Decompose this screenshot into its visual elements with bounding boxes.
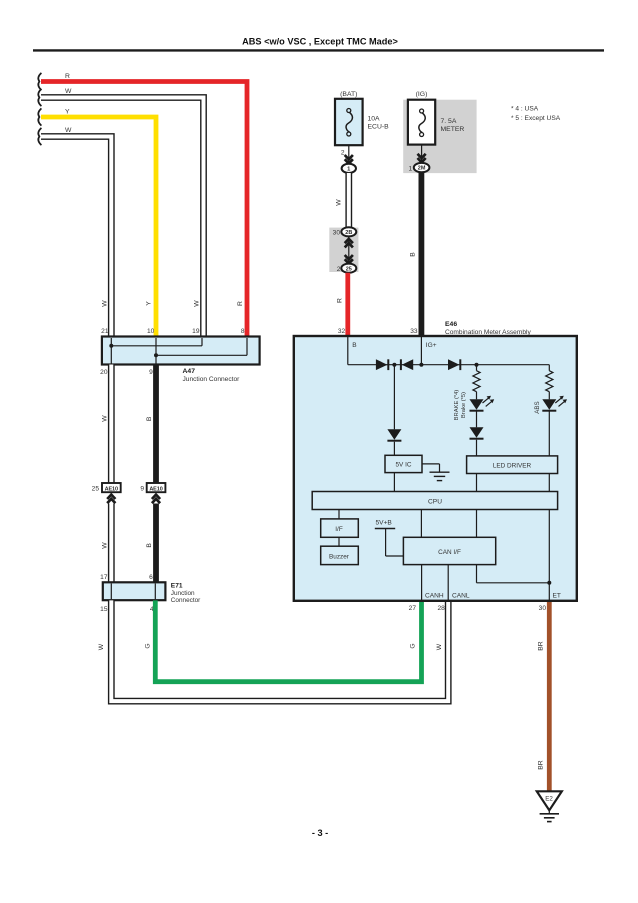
abs indicator resistor [548, 365, 550, 371]
svg-text:CAN I/F: CAN I/F [438, 549, 461, 556]
wire fuse to connector 1 [348, 145, 350, 164]
ground point E2 [537, 791, 562, 810]
svg-text:30: 30 [333, 229, 341, 236]
wire CAN I/F to ET node [476, 565, 478, 583]
arrow into connector 2M [418, 154, 426, 158]
svg-text:ABS: ABS [534, 401, 541, 413]
ground at 5V IC [422, 463, 440, 465]
A47 junction dot pin10 [154, 353, 158, 357]
wires LED DRIVER to CPU [476, 474, 478, 492]
fuse ECU-B symbol [347, 109, 351, 113]
svg-text:LED DRIVER: LED DRIVER [493, 462, 532, 469]
svg-text:Y: Y [146, 301, 153, 306]
A47 internal link pin10-pin8 [155, 338, 157, 355]
svg-text:* 4 : USA: * 4 : USA [511, 106, 539, 113]
svg-text:BRAKE (*4): BRAKE (*4) [454, 390, 460, 421]
svg-text:E71: E71 [171, 583, 183, 590]
arrow into connector 1 [345, 155, 353, 159]
wire I/F to Buzzer [338, 537, 340, 546]
wire CPU to ET pin 30 [548, 510, 550, 601]
wire G from E71 pin 4 to meter pin 27 (CANH) [155, 600, 421, 681]
svg-text:W: W [98, 643, 105, 650]
svg-text:2M: 2M [418, 166, 426, 172]
title rule [33, 49, 604, 51]
wire W connector1 to 2B [345, 173, 352, 228]
svg-text:2B: 2B [345, 230, 352, 236]
wire B from 2M to meter pin 33 [418, 172, 424, 338]
svg-text:METER: METER [441, 126, 465, 133]
I/F box [321, 519, 359, 537]
svg-text:(IG): (IG) [416, 91, 428, 98]
A47 internal pass-through to pin9 [155, 355, 157, 363]
svg-text:Y: Y [65, 108, 70, 115]
svg-text:AE10: AE10 [105, 486, 118, 492]
wire CPU to I/F [338, 510, 340, 519]
wire W2 run to A47 pin 21 [41, 137, 111, 339]
Buzzer box [321, 546, 359, 564]
svg-text:Junction: Junction [171, 590, 195, 597]
connector oval 2M [414, 163, 430, 172]
diode D4 to 5V IC [387, 429, 401, 440]
power diode rail [348, 364, 550, 366]
svg-text:BR: BR [538, 641, 545, 651]
A47 junction dot pin21 [109, 344, 113, 348]
svg-text:Connector: Connector [171, 597, 201, 604]
svg-text:32: 32 [338, 328, 346, 335]
svg-text:ET: ET [553, 592, 561, 599]
svg-text:17: 17 [100, 574, 108, 581]
svg-text:CANH: CANH [425, 592, 444, 599]
LED DRIVER box [467, 456, 558, 474]
diode D2 from IG+ [402, 359, 413, 370]
svg-text:10A: 10A [368, 116, 381, 123]
gray block behind IG fuse [403, 100, 476, 173]
combination meter assembly box E46 [294, 336, 577, 601]
svg-text:10: 10 [147, 328, 155, 335]
svg-text:7. 5A: 7. 5A [441, 118, 457, 125]
wire 5VIC to CPU [393, 473, 395, 492]
junction dot ET [547, 581, 551, 585]
svg-text:* 5 : Except USA: * 5 : Except USA [511, 115, 561, 122]
svg-text:W: W [65, 127, 72, 134]
arrows 2B block [345, 239, 353, 243]
wire R from 25 to meter pin 32 [345, 273, 350, 338]
AE10 left chevron arrows [107, 495, 115, 499]
junction connector A47 box [102, 337, 260, 365]
svg-text:AE10: AE10 [149, 486, 162, 492]
svg-text:20: 20 [100, 369, 108, 376]
wires CPU to CAN I/F [420, 510, 422, 538]
svg-text:W: W [336, 199, 343, 206]
A47 internal pass-through to pin20 [110, 346, 112, 364]
connector AE10 (pin 9) [147, 483, 166, 492]
connector AE10 (pin 25) [102, 483, 121, 492]
CAN I/F box [403, 537, 495, 564]
E71 internal pass-through lines [110, 584, 112, 600]
svg-text:G: G [410, 643, 417, 648]
wire W from AE10 to E71 pin 17 [108, 504, 115, 584]
wire CANH inside meter [421, 565, 423, 601]
brake branch diode D5 [476, 411, 478, 428]
wire W from A47 pin 20 to AE10 [108, 365, 115, 484]
svg-text:CPU: CPU [428, 498, 442, 505]
svg-text:Brake (*5): Brake (*5) [461, 392, 467, 418]
svg-text:25: 25 [346, 266, 352, 272]
diode D1 from B [376, 359, 388, 370]
svg-text:BR: BR [538, 760, 545, 770]
svg-text:Junction Connector: Junction Connector [183, 376, 241, 383]
svg-text:CANL: CANL [452, 592, 470, 599]
fuse METER box (IG) [408, 100, 435, 145]
wire node to diode D4 [393, 365, 395, 430]
svg-text:28: 28 [437, 605, 445, 612]
svg-text:9: 9 [140, 485, 144, 492]
svg-text:21: 21 [101, 328, 109, 335]
connector oval 1 [342, 164, 356, 173]
svg-text:15: 15 [100, 606, 108, 613]
5V IC box [385, 455, 422, 472]
wire R from power source (continuation brace) [38, 73, 41, 90]
svg-text:1: 1 [409, 166, 413, 173]
svg-text:I/F: I/F [335, 526, 343, 533]
svg-text:A47: A47 [183, 368, 196, 375]
svg-text:5V IC: 5V IC [396, 462, 412, 469]
svg-text:W: W [65, 88, 72, 95]
A47 internal link pin21-pin19 [110, 338, 112, 346]
brake indicator LED [470, 399, 484, 410]
wire pin32 B into rail [347, 337, 349, 365]
connector oval 25 [341, 264, 356, 273]
svg-text:6: 6 [149, 574, 153, 581]
CPU box [312, 492, 557, 510]
svg-text:W: W [102, 300, 109, 307]
svg-text:W: W [193, 300, 200, 307]
svg-text:8: 8 [241, 328, 245, 335]
svg-text:B: B [146, 543, 153, 548]
wire W (continuation brace) [38, 89, 41, 106]
svg-text:Buzzer: Buzzer [329, 553, 350, 560]
svg-text:27: 27 [409, 605, 417, 612]
svg-text:B: B [410, 252, 417, 257]
svg-text:R: R [65, 73, 70, 80]
svg-text:IG+: IG+ [426, 342, 437, 349]
wire Y (continuation brace) [38, 108, 41, 125]
junction dots on rail [392, 363, 396, 367]
diode D3 to indicators [448, 359, 459, 370]
wire Y run to A47 pin 10 [41, 117, 156, 338]
wire BR from meter pin 30 to ground E2 [547, 602, 552, 791]
wire W2 (continuation brace) [38, 128, 41, 145]
svg-text:25: 25 [92, 485, 100, 492]
svg-text:W: W [436, 643, 443, 650]
svg-text:E46: E46 [445, 321, 457, 328]
wire D4 to 5V IC [393, 442, 395, 456]
wire B from A47 pin 9 to AE10 [153, 365, 159, 484]
abs indicator LED [542, 399, 556, 410]
svg-text:19: 19 [192, 328, 200, 335]
svg-text:ECU-B: ECU-B [368, 124, 390, 131]
wire CANL inside meter [447, 565, 449, 601]
wire pin33 IG+ into rail [420, 337, 422, 365]
fuse ECU-B box (BAT) [335, 99, 363, 145]
svg-text:- 3 -: - 3 - [312, 828, 328, 838]
svg-text:E2: E2 [545, 796, 553, 803]
svg-text:W: W [102, 542, 109, 549]
svg-text:2: 2 [337, 266, 341, 273]
connector oval 2B [348, 236, 350, 263]
svg-text:ABS <w/o VSC , Except TMC Made: ABS <w/o VSC , Except TMC Made> [242, 37, 398, 47]
svg-text:5V+B: 5V+B [376, 519, 393, 526]
wire R horizontal/vertical run to A47 pin 8 [41, 82, 247, 339]
wire B from AE10 to E71 pin 6 [153, 504, 159, 584]
svg-text:33: 33 [410, 328, 418, 335]
gray junction block behind 2B/25 [329, 228, 358, 272]
svg-text:B: B [352, 342, 357, 349]
svg-text:9: 9 [149, 369, 153, 376]
svg-text:30: 30 [539, 605, 547, 612]
brake indicator resistor [476, 365, 478, 371]
fuse METER symbol [420, 109, 424, 113]
wire fuse to connector 2M [421, 145, 423, 163]
svg-text:G: G [145, 643, 152, 648]
svg-text:B: B [146, 416, 153, 421]
AE10 right chevron arrows [152, 495, 160, 499]
svg-text:R: R [237, 301, 244, 306]
svg-text:R: R [337, 298, 344, 303]
svg-text:(BAT): (BAT) [340, 91, 357, 98]
svg-text:Combination Meter Assembly: Combination Meter Assembly [445, 329, 531, 336]
svg-text:W: W [102, 415, 109, 422]
wire W run to A47 pin 19 [41, 98, 204, 339]
wire W from E71 pin 15 to meter pin 28 (CANL) [111, 600, 448, 701]
junction connector E71 box [103, 582, 166, 600]
